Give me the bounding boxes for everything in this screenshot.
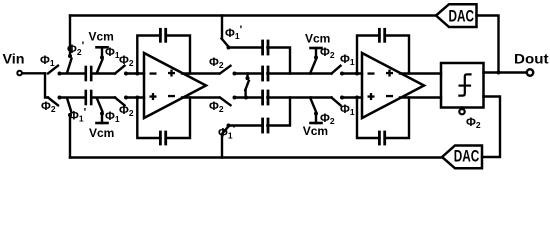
switch S10 phi2 row C bbox=[220, 96, 261, 106]
switch S16 phi1 series stage2 top bbox=[332, 66, 363, 76]
svg-text:Vcm: Vcm bbox=[89, 126, 114, 140]
capacitor CF2 integrator1 bottom feedback bbox=[137, 98, 190, 145]
comparator U3 quantizer box bbox=[441, 63, 484, 108]
label U2 output minus bbox=[386, 95, 393, 97]
capacitor CS2 bottom sampling bbox=[86, 91, 115, 104]
capacitor CS4 row C sampling bbox=[263, 91, 311, 104]
wire U1 output bottom bbox=[182, 96, 219, 98]
svg-text:Φ2: Φ2 bbox=[119, 53, 134, 68]
svg-text:Φ2: Φ2 bbox=[320, 111, 335, 126]
capacitor CF1 integrator1 top feedback bbox=[137, 29, 190, 73]
svg-text:Φ2: Φ2 bbox=[320, 45, 335, 60]
wire top DAC feedback line bbox=[70, 14, 436, 16]
svg-text:DAC: DAC bbox=[454, 147, 480, 166]
label U2 input minus bbox=[368, 72, 375, 74]
svg-text:Vcm: Vcm bbox=[305, 31, 330, 45]
capacitor CS1 top sampling bbox=[86, 67, 115, 80]
switch S17 phi1 series stage2 bottom bbox=[332, 96, 363, 106]
svg-text:Φ1: Φ1 bbox=[340, 102, 355, 117]
svg-text:Φ1: Φ1 bbox=[340, 52, 355, 67]
svg-text:Φ1': Φ1' bbox=[69, 107, 87, 124]
wire Dout output line bbox=[484, 71, 527, 75]
DAC D1 top bbox=[436, 4, 477, 27]
wire U2 output bottom bbox=[400, 96, 441, 98]
wire U2 output top bbox=[400, 72, 441, 74]
node U1 input junctions bbox=[135, 72, 139, 100]
capacitor CS3 row B sampling bbox=[263, 67, 311, 80]
wire input split junction bbox=[45, 74, 48, 98]
svg-text:Φ2: Φ2 bbox=[466, 115, 481, 130]
wire U1 output top bbox=[182, 72, 219, 74]
switch S12 phi1p row A bbox=[222, 16, 262, 50]
op-amp U2 bbox=[362, 53, 424, 118]
switch S7 phi2 series top bbox=[115, 66, 144, 76]
switch S13 phi1p row D bbox=[222, 124, 262, 158]
wire comparator to top DAC bbox=[477, 16, 499, 73]
switch S6 phi1 to Vcm bottom bbox=[97, 99, 108, 124]
node Dout terminal bbox=[527, 69, 533, 75]
DAC D2 bottom bbox=[442, 146, 482, 169]
comparator U3 signum symbol bbox=[459, 74, 470, 95]
node U2 input junctions bbox=[355, 72, 359, 100]
label U2 input plus bbox=[368, 93, 375, 100]
switch S8 phi2 series bottom bbox=[115, 96, 144, 106]
svg-text:Φ1: Φ1 bbox=[105, 45, 120, 60]
label U1 output plus bbox=[168, 70, 175, 77]
switch S1 phi1 top input bbox=[48, 66, 85, 76]
svg-text:Φ1: Φ1 bbox=[40, 53, 55, 68]
svg-text:Φ1': Φ1' bbox=[225, 24, 243, 41]
label U1 output minus bbox=[168, 95, 175, 97]
svg-text:Vcm: Vcm bbox=[303, 124, 328, 138]
svg-text:Φ2': Φ2' bbox=[67, 40, 85, 57]
capacitor CF3 integrator2 top feedback bbox=[357, 29, 409, 73]
capacitor CF4 integrator2 bottom feedback bbox=[357, 98, 409, 145]
svg-text:Vin: Vin bbox=[3, 51, 25, 67]
svg-text:Φ1: Φ1 bbox=[105, 109, 120, 124]
wire bottom DAC feedback line bbox=[70, 156, 442, 158]
svg-text:Φ2: Φ2 bbox=[209, 99, 224, 114]
svg-text:Φ1': Φ1' bbox=[218, 124, 236, 141]
switch S4 phi1p vertical bottom DAC feedback bbox=[67, 98, 72, 158]
switch S2 phi2 bottom input bbox=[48, 96, 85, 106]
switch S3 phi2p vertical top DAC feedback bbox=[67, 16, 72, 74]
label U1 input minus bbox=[150, 72, 157, 74]
switch S9 phi2 row B bbox=[220, 66, 261, 76]
node Vin terminal bbox=[17, 71, 45, 76]
svg-text:Φ2: Φ2 bbox=[119, 103, 134, 118]
switch S15 phi2 to Vcm stage2 bottom bbox=[311, 98, 332, 124]
label U2 output plus bbox=[386, 70, 393, 77]
capacitor CD row D DAC cap bbox=[263, 98, 290, 133]
switch S11 cross reset between rows bbox=[244, 74, 250, 100]
svg-text:Φ2: Φ2 bbox=[209, 55, 224, 70]
switch S5 phi1 to Vcm top bbox=[97, 47, 108, 72]
op-amp U1 bbox=[144, 53, 206, 118]
svg-text:Vcm: Vcm bbox=[89, 30, 114, 44]
wire comparator bottom output to bottom DAC bbox=[482, 97, 500, 158]
clock input phi2 of comparator bbox=[459, 108, 464, 115]
switch S14 phi2 to Vcm stage2 top bbox=[311, 48, 332, 74]
capacitor CA row A DAC cap bbox=[263, 41, 290, 74]
svg-text:Dout: Dout bbox=[514, 51, 549, 67]
label U1 input plus bbox=[150, 93, 157, 100]
svg-text:DAC: DAC bbox=[449, 7, 475, 26]
